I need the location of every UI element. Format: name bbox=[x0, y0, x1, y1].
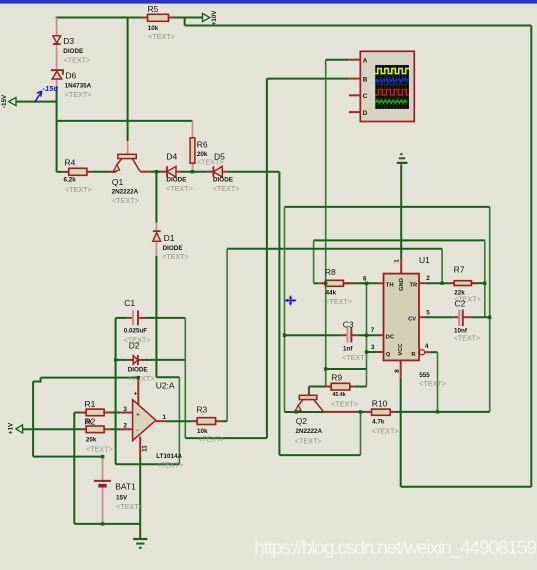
pin C2 right bbox=[463, 316, 472, 318]
junction R8 left / scope A bbox=[324, 282, 327, 285]
wire TH/DC vertical link bbox=[366, 283, 368, 386]
pin D1 bottom pale bbox=[155, 241, 157, 256]
svg-text:<TEXT>: <TEXT> bbox=[198, 435, 225, 444]
resistor R5 bbox=[148, 4, 175, 41]
transistor Q1 bbox=[112, 154, 140, 205]
wire collector to R10 bbox=[357, 411, 366, 413]
wire D2 left bbox=[116, 359, 127, 361]
junction C2 right bbox=[488, 316, 491, 319]
svg-text:A: A bbox=[363, 58, 368, 65]
wire R4 right to Q1 emitter bbox=[92, 171, 109, 173]
svg-text:1: 1 bbox=[163, 414, 167, 421]
wire opamp V- down to ground bbox=[139, 457, 141, 539]
svg-text:3: 3 bbox=[371, 344, 375, 351]
svg-text:Q1: Q1 bbox=[112, 177, 124, 187]
svg-text:20k: 20k bbox=[86, 437, 97, 444]
svg-text:2k: 2k bbox=[85, 419, 93, 426]
wire C1 left bbox=[116, 317, 127, 319]
pin R3 right bbox=[216, 420, 222, 422]
svg-text:<TEXT>: <TEXT> bbox=[166, 184, 193, 193]
pin D5 right bbox=[222, 171, 228, 173]
svg-text:2: 2 bbox=[426, 275, 430, 282]
svg-text:C3: C3 bbox=[343, 319, 354, 329]
wire battery plus horizontal bbox=[33, 456, 103, 458]
svg-text:TR: TR bbox=[409, 283, 418, 289]
svg-text:LT1014A: LT1014A bbox=[156, 453, 182, 460]
svg-text:R9: R9 bbox=[331, 373, 342, 383]
wire R3 right corner bbox=[222, 420, 228, 422]
junction R pin net / R10 rail bbox=[436, 410, 439, 413]
svg-text:+10V: +10V bbox=[211, 10, 218, 26]
svg-text:GND: GND bbox=[399, 278, 405, 291]
wire Q output stub horizontal bbox=[367, 351, 378, 353]
pin C3 left bbox=[341, 334, 347, 336]
wire R3 to 555 TR net horizontal bbox=[227, 248, 442, 250]
junction Q branch / scope A line bbox=[324, 367, 327, 370]
capacitor C1 bbox=[124, 298, 151, 344]
blue top border bar bbox=[0, 0, 537, 4]
svg-text:R5: R5 bbox=[148, 4, 159, 14]
wire from left vertical to R6 top bbox=[57, 120, 193, 122]
svg-text:<TEXT>: <TEXT> bbox=[65, 90, 92, 99]
power arrow +1V bbox=[8, 422, 23, 434]
wire opamp R1 left vertical bbox=[73, 413, 75, 524]
wire R pin vertical down bbox=[437, 352, 439, 412]
svg-text:45.4k: 45.4k bbox=[332, 392, 345, 398]
pin R1 left bbox=[81, 412, 86, 414]
svg-text:<TEXT>: <TEXT> bbox=[342, 353, 369, 362]
junction C3 left T bbox=[283, 334, 286, 337]
svg-text:1nf: 1nf bbox=[343, 345, 353, 352]
svg-text:D6: D6 bbox=[65, 70, 76, 80]
pin D6 bottom pale bbox=[56, 79, 58, 86]
pin D2 left bbox=[127, 359, 134, 361]
pin opamp V- bbox=[139, 437, 141, 458]
svg-text:R1: R1 bbox=[85, 399, 96, 409]
wire TR pin to R7 left bbox=[426, 282, 449, 284]
svg-text:<TEXT>: <TEXT> bbox=[112, 196, 139, 205]
wire Q1 base vertical from top rail bbox=[127, 18, 129, 142]
pin BAT1 bottom pale bbox=[102, 487, 104, 524]
wire R5 right to +10V arrow bbox=[174, 17, 203, 19]
svg-text:R8: R8 bbox=[325, 267, 336, 277]
wire D1 net vertical down right of opamp bbox=[178, 377, 180, 464]
svg-text:15V: 15V bbox=[116, 495, 128, 502]
wire long vertical right C3 net bbox=[489, 207, 491, 412]
wire R1 left short bbox=[74, 412, 81, 414]
pin R4 right bbox=[87, 171, 92, 173]
wire scope B bottom horizontal bbox=[185, 437, 267, 439]
svg-text:B: B bbox=[363, 77, 368, 84]
svg-text:<TEXT>: <TEXT> bbox=[157, 461, 184, 470]
wire D1 branch vertical from D4 junction bbox=[155, 172, 157, 223]
pin BAT1 top pale bbox=[102, 457, 104, 481]
svg-text:4: 4 bbox=[425, 343, 429, 350]
pin R8 left bbox=[320, 282, 326, 284]
pin R3 left bbox=[192, 420, 198, 422]
svg-text:<TEXT>: <TEXT> bbox=[454, 334, 481, 343]
svg-text:D1: D1 bbox=[164, 233, 175, 243]
diode D5 bbox=[213, 152, 240, 194]
svg-text:https://blog.csdn.net/weixin_4: https://blog.csdn.net/weixin_44908159 bbox=[254, 537, 536, 559]
pin scope D bbox=[349, 111, 360, 113]
svg-text:DC: DC bbox=[386, 335, 395, 341]
junction R6 bottom bbox=[191, 170, 194, 173]
wire C1 right bbox=[146, 317, 186, 319]
svg-text:+1V: +1V bbox=[8, 422, 15, 434]
svg-text:44k: 44k bbox=[326, 289, 337, 296]
svg-text:<TEXT>: <TEXT> bbox=[116, 502, 143, 511]
ground top inverted bbox=[397, 154, 408, 163]
svg-text:<TEXT>: <TEXT> bbox=[128, 374, 155, 383]
svg-text:TH: TH bbox=[386, 283, 394, 289]
svg-text:555: 555 bbox=[419, 372, 430, 379]
svg-text:<TEXT>: <TEXT> bbox=[65, 185, 92, 194]
pin C1 left bbox=[127, 317, 132, 319]
wire opamp output to R3 bbox=[167, 420, 192, 422]
wire R7 right vertical bbox=[484, 240, 486, 317]
resistor R7 bbox=[454, 264, 481, 303]
junction D5 net / R10 rail bbox=[359, 410, 362, 413]
svg-text:D: D bbox=[363, 110, 368, 117]
svg-text:6: 6 bbox=[363, 276, 367, 283]
wire top rail from node at x=56.6 to R5 left bbox=[56, 17, 142, 19]
svg-text:BAT1: BAT1 bbox=[115, 482, 136, 492]
555 timer U1 bbox=[363, 255, 446, 388]
resistor R3 bbox=[196, 405, 224, 444]
junction battery top bbox=[101, 455, 104, 458]
pin D5 left bbox=[207, 171, 214, 173]
svg-text:11: 11 bbox=[142, 445, 149, 452]
wire D5 net up to R10 left net bbox=[360, 412, 362, 455]
wire opamp pin2 wire bbox=[110, 428, 120, 430]
svg-text:U2:A: U2:A bbox=[156, 381, 175, 391]
svg-text:<TEXT>: <TEXT> bbox=[331, 400, 358, 409]
wire top ground vertical to 555 pin1 bbox=[400, 164, 402, 259]
wire R10 right rail bbox=[396, 411, 490, 413]
pin 555 VCC bottom bbox=[400, 360, 402, 378]
pin R2 right bbox=[104, 428, 110, 430]
wire R9 right wire bbox=[355, 386, 367, 388]
wire scope A vertical down to R9 left bbox=[325, 60, 327, 387]
svg-text:<TEXT>: <TEXT> bbox=[295, 437, 322, 446]
pin opamp V+ bbox=[137, 378, 139, 405]
wire CV to C2 left bbox=[425, 316, 453, 318]
svg-text:<TEXT>: <TEXT> bbox=[64, 55, 91, 64]
wire C3 net top horizontal bbox=[285, 206, 490, 208]
wire left vertical below D6 to -15V node bbox=[56, 86, 58, 121]
wire C3 net left vertical bbox=[284, 207, 286, 412]
pin Q2 base bbox=[308, 391, 310, 396]
junction Q2 emitter bbox=[294, 410, 297, 413]
svg-text:<TEXT>: <TEXT> bbox=[325, 297, 352, 306]
svg-text:D2: D2 bbox=[129, 341, 140, 351]
pin opamp output bbox=[156, 420, 167, 422]
wire 555 R pin to corner bbox=[431, 351, 438, 353]
diode D3 bbox=[53, 36, 90, 65]
svg-text:R4: R4 bbox=[65, 158, 76, 168]
ground bottom bbox=[133, 539, 147, 548]
pin Q1 collector foot bbox=[140, 171, 151, 173]
junction C3 wire / link bbox=[365, 334, 368, 337]
pin 555 TR bbox=[419, 282, 426, 284]
wire R8 right to 555 TH bbox=[343, 282, 377, 284]
wire +15 branch vertical bbox=[32, 382, 34, 457]
svg-text:CV: CV bbox=[408, 316, 416, 322]
svg-text:DIODE: DIODE bbox=[63, 48, 83, 55]
pin R5 left bbox=[142, 17, 148, 19]
wire R7 right short bbox=[471, 282, 484, 284]
pin R1 right bbox=[104, 412, 110, 414]
svg-text:DIODE: DIODE bbox=[166, 177, 186, 184]
svg-text:DIODE: DIODE bbox=[213, 177, 233, 184]
pin D2 right bbox=[138, 359, 145, 361]
svg-text:R7: R7 bbox=[454, 264, 465, 274]
pin R5 right bbox=[169, 17, 175, 19]
wire D5 net vertical down bbox=[278, 172, 280, 455]
wire D1 net horizontal to right bbox=[156, 376, 179, 378]
resistor R6 bbox=[190, 138, 223, 167]
wire scope B vertical bbox=[266, 79, 268, 439]
pin R6 bottom pale bbox=[192, 163, 194, 172]
pin D3/D6 middle pale bbox=[56, 45, 58, 70]
wire R8 left vertical up bbox=[313, 240, 315, 283]
oscilloscope bbox=[360, 51, 414, 121]
pin scope C bbox=[349, 94, 360, 96]
wire Q2/R10 rail left part bbox=[285, 411, 324, 413]
pin C2 left bbox=[453, 316, 459, 318]
scope trace D green bbox=[375, 100, 407, 103]
svg-text:C1: C1 bbox=[124, 298, 135, 308]
svg-text:6.2k: 6.2k bbox=[64, 177, 77, 184]
wire Q output branch horizontal bbox=[326, 368, 367, 370]
wire TR net drop bbox=[441, 249, 443, 284]
svg-text:1: 1 bbox=[394, 259, 401, 263]
blue origin marker bbox=[284, 295, 296, 305]
junction D2 left on feedback vertical bbox=[114, 358, 117, 361]
pin 555 CV bbox=[419, 316, 425, 318]
wire D5 net bottom horizontal bbox=[279, 454, 360, 456]
junction D1/D4 node bbox=[155, 170, 158, 173]
pin scope A bbox=[349, 59, 360, 61]
wire C3 right to 555 DC bbox=[357, 334, 378, 336]
wire bottom left horizontal bbox=[74, 523, 140, 525]
wire C1/D2 right vertical bbox=[184, 318, 186, 438]
svg-text:4.7k: 4.7k bbox=[372, 418, 385, 425]
svg-text:0.025uF: 0.025uF bbox=[124, 328, 148, 335]
pin R6 top pale bbox=[192, 121, 194, 138]
svg-text:C: C bbox=[363, 93, 368, 100]
pin D4 right bbox=[176, 171, 182, 173]
svg-text:7: 7 bbox=[371, 327, 375, 334]
svg-text:2: 2 bbox=[124, 423, 128, 430]
pin R2 left bbox=[81, 428, 86, 430]
scope trace C red bbox=[375, 90, 409, 96]
svg-text:10k: 10k bbox=[148, 25, 159, 32]
wire R4 left stub bbox=[57, 171, 62, 173]
resistor R1 bbox=[85, 399, 105, 416]
junction opamp V+ bbox=[137, 376, 140, 379]
svg-text:C2: C2 bbox=[455, 299, 466, 309]
svg-text:Q: Q bbox=[386, 352, 391, 358]
svg-text:-: - bbox=[136, 427, 138, 434]
wire left vertical from -15V node down to R4 bbox=[56, 121, 58, 172]
pin D3 top pale bbox=[56, 18, 58, 36]
wire jog down from top rail to +10V distribution rail bbox=[184, 18, 186, 26]
wire scope A to pin bbox=[326, 59, 349, 61]
pin R9 left bbox=[326, 386, 332, 388]
svg-text:5: 5 bbox=[426, 309, 430, 316]
svg-text:2N2222A: 2N2222A bbox=[112, 188, 139, 195]
pin Q2 collector horizontal bbox=[324, 411, 358, 413]
svg-text:3: 3 bbox=[123, 406, 127, 413]
wire +1V arrow to R2 bbox=[23, 428, 81, 430]
resistor R10 bbox=[372, 399, 399, 436]
junction TR net bbox=[440, 282, 443, 285]
junction TH link top bbox=[365, 282, 368, 285]
pin scope B bbox=[349, 78, 360, 80]
wire R3 right vertical bbox=[226, 249, 228, 422]
pin D1 top pale bbox=[155, 223, 157, 232]
wire R8 left corner bbox=[314, 282, 320, 284]
svg-text:D3: D3 bbox=[63, 36, 74, 46]
wire 555 VCC pin down bbox=[400, 378, 402, 487]
wire +10V rail going right bbox=[185, 25, 532, 27]
svg-text:R3: R3 bbox=[196, 405, 207, 415]
junction Q stub / link bbox=[365, 350, 368, 353]
power arrow -15V bbox=[1, 94, 16, 108]
pin 555 Q bbox=[378, 351, 384, 353]
pin opamp input 2 bbox=[120, 428, 132, 430]
svg-text:-15u: -15u bbox=[43, 84, 59, 93]
svg-text:2N2222A: 2N2222A bbox=[296, 428, 323, 435]
wire opamp pin3 wire bbox=[110, 412, 120, 414]
svg-text:<TEXT>: <TEXT> bbox=[213, 184, 240, 193]
pin 555 DC bbox=[378, 334, 384, 336]
capacitor C3 bbox=[342, 319, 369, 362]
svg-text:1N4735A: 1N4735A bbox=[65, 82, 92, 89]
svg-text:VCC: VCC bbox=[398, 343, 404, 356]
pin R7 right bbox=[471, 282, 477, 284]
wire -15V arrow to left vertical bbox=[16, 101, 57, 103]
zener diode D6 bbox=[51, 70, 92, 99]
pin R10 left bbox=[366, 411, 372, 413]
battery BAT1 bbox=[94, 481, 143, 511]
op-amp U2:A bbox=[123, 381, 183, 470]
wire bottom of opamp box bbox=[116, 463, 180, 465]
svg-text:U1: U1 bbox=[419, 255, 430, 265]
svg-text:Q2: Q2 bbox=[296, 416, 308, 426]
pin R4 left bbox=[62, 171, 69, 173]
wire D5 right going to descend bbox=[228, 171, 279, 173]
capacitor C2 bbox=[454, 299, 481, 343]
scope trace A yellow bbox=[375, 69, 409, 74]
pin 555 R after bubble bbox=[425, 351, 431, 353]
pin opamp input 3 bbox=[120, 412, 132, 414]
wire left vertical C1/D2 feedback bbox=[115, 318, 117, 464]
wire scope B to pin bbox=[267, 78, 349, 80]
pin R7 left bbox=[449, 282, 454, 284]
resistor R8 bbox=[325, 267, 352, 306]
svg-text:-15V: -15V bbox=[1, 94, 8, 108]
svg-text:<TEXT>: <TEXT> bbox=[162, 252, 189, 261]
wire bottom of +10V loop to 555 VCC bbox=[401, 486, 532, 488]
scope trace B blue bbox=[375, 78, 409, 85]
blue annotation arrow -15u bbox=[35, 91, 42, 103]
pin R10 right bbox=[390, 411, 396, 413]
svg-text:<TEXT>: <TEXT> bbox=[372, 427, 399, 436]
svg-text:DIODE: DIODE bbox=[128, 367, 148, 374]
junction R7 right bbox=[483, 282, 486, 285]
svg-text:+: + bbox=[134, 391, 138, 398]
svg-text:R10: R10 bbox=[372, 399, 388, 409]
svg-text:8: 8 bbox=[394, 369, 401, 373]
svg-text:R6: R6 bbox=[197, 140, 208, 150]
wire D4 to D5 through R6 bottom bbox=[182, 171, 207, 173]
resistor R9 bbox=[331, 373, 358, 409]
wire C3 left horizontal bbox=[285, 334, 342, 336]
wire R9 left wire bbox=[309, 386, 326, 388]
svg-text:<TEXT>: <TEXT> bbox=[419, 379, 446, 388]
wire right edge vertical +10V down bbox=[530, 26, 532, 487]
pin C1 right bbox=[139, 317, 145, 319]
svg-text:<TEXT>: <TEXT> bbox=[86, 445, 113, 454]
wire below D1 down bbox=[155, 256, 157, 377]
wire D2 right bbox=[145, 359, 185, 361]
pin R8 right bbox=[343, 282, 352, 284]
diode D1 bbox=[153, 231, 189, 261]
wire Q1 collector to D4 bbox=[151, 171, 161, 173]
pin 555 TH bbox=[378, 282, 384, 284]
wire opamp V+ rail horizontal bbox=[41, 377, 139, 379]
pin Q1 emitter foot bbox=[109, 171, 116, 173]
resistor R2 bbox=[85, 417, 113, 454]
wire C2 right bbox=[473, 316, 490, 318]
junction battery bottom / ground rail bbox=[101, 522, 104, 525]
svg-text:D5: D5 bbox=[214, 152, 225, 162]
pin R9 right bbox=[350, 386, 355, 388]
svg-text:D4: D4 bbox=[166, 152, 177, 162]
pale pins bbox=[57, 18, 193, 524]
svg-text:+: + bbox=[136, 412, 140, 419]
resistor R4 bbox=[64, 158, 92, 195]
pin 555 GND top bbox=[400, 260, 402, 274]
pin C3 right bbox=[352, 334, 358, 336]
wire jog to opamp V+ rail bbox=[33, 378, 41, 382]
diode D4 bbox=[166, 152, 193, 194]
svg-text:DIODE: DIODE bbox=[163, 245, 183, 252]
transistor Q2 bbox=[294, 395, 323, 445]
wire Q2 base drop bbox=[308, 387, 310, 391]
wire R8/R7 top net horizontal bbox=[314, 239, 485, 241]
pin Q1 base pale bbox=[127, 141, 129, 154]
svg-text:<TEXT>: <TEXT> bbox=[148, 32, 175, 41]
diode D2 bbox=[128, 341, 155, 384]
power arrow +10V bbox=[203, 10, 219, 26]
pin D4 left bbox=[161, 171, 167, 173]
